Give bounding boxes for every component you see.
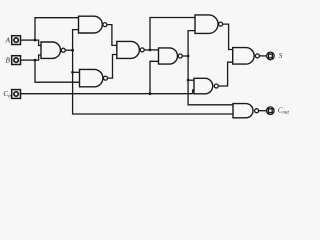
wire B down to G3 bottom input	[35, 60, 81, 82]
junction G3 top tap	[71, 71, 74, 74]
wire G3 out to G4 bottom input	[108, 55, 118, 79]
junction G7 top tap	[187, 79, 190, 82]
input terminal B	[12, 56, 21, 65]
wire node4 stub to G5 top input	[150, 49, 160, 51]
junction G4 out	[149, 49, 152, 52]
wire G2 out to G4 top input	[107, 25, 118, 46]
wire G6 out to G8 top input	[223, 24, 234, 49]
svg-text:S: S	[279, 52, 283, 60]
wire G9 out to Cout terminal	[259, 110, 267, 112]
wire node5 up to G6 bottom input	[188, 31, 196, 56]
wire node1 tap to G3 top input	[73, 71, 81, 73]
svg-text:A: A	[5, 36, 11, 44]
output terminal Cout	[267, 107, 275, 115]
NAND gate G9 NAND(G5,G1)=Cout	[233, 104, 259, 118]
wire G8 out to S terminal	[259, 55, 266, 57]
wire G4 out to node	[144, 49, 150, 51]
NAND gate G3 NAND(B,G1)	[80, 69, 108, 86]
wire B to split	[21, 59, 35, 61]
NAND gate G8 NAND(G6,G7)=S	[233, 48, 260, 65]
wire A step to G1 top input	[35, 40, 42, 45]
output terminal S	[267, 52, 275, 60]
wire G7 out to G8 bottom input	[218, 62, 233, 86]
NAND gate G4 NAND(G2,G3)=A^B	[117, 41, 144, 58]
NAND gate G6 NAND(G4,G5)	[195, 15, 223, 34]
junction G1 out	[71, 49, 74, 52]
wire A to split	[21, 39, 35, 41]
wire node1 up to G2 bottom input	[73, 30, 80, 51]
wire node4 up to G6 top input	[150, 18, 196, 50]
input terminal Cin	[12, 90, 21, 99]
NAND gate G5 NAND(G4,Cin)	[159, 48, 183, 64]
input terminal A	[12, 36, 21, 45]
NAND gate G2 NAND(A,G1)	[79, 16, 107, 33]
wire Cin riser to G7 bottom input	[193, 90, 195, 94]
svg-text:B: B	[6, 56, 11, 64]
wire B step to G1 bottom input	[35, 55, 42, 60]
wire G5 out to node	[182, 55, 188, 57]
junction G5 out	[187, 55, 190, 58]
junction A split	[34, 39, 37, 42]
wire A up to G2 top input	[35, 18, 80, 40]
wire node5 tap to G7 top input	[188, 79, 195, 81]
junction B split	[34, 59, 37, 62]
NAND gate G1 NAND(A,B)	[41, 42, 65, 58]
junction Cin tap	[149, 92, 152, 95]
NAND gate G7 NAND(G5,Cin)	[194, 78, 218, 94]
wire node1 down to G9 bottom input	[73, 50, 234, 114]
wire G1 out to node	[65, 49, 72, 51]
wire node5 down to G9 top input	[188, 56, 234, 105]
wire Cin bus	[21, 93, 193, 95]
wire Cin riser to G5 bottom input	[150, 61, 160, 93]
